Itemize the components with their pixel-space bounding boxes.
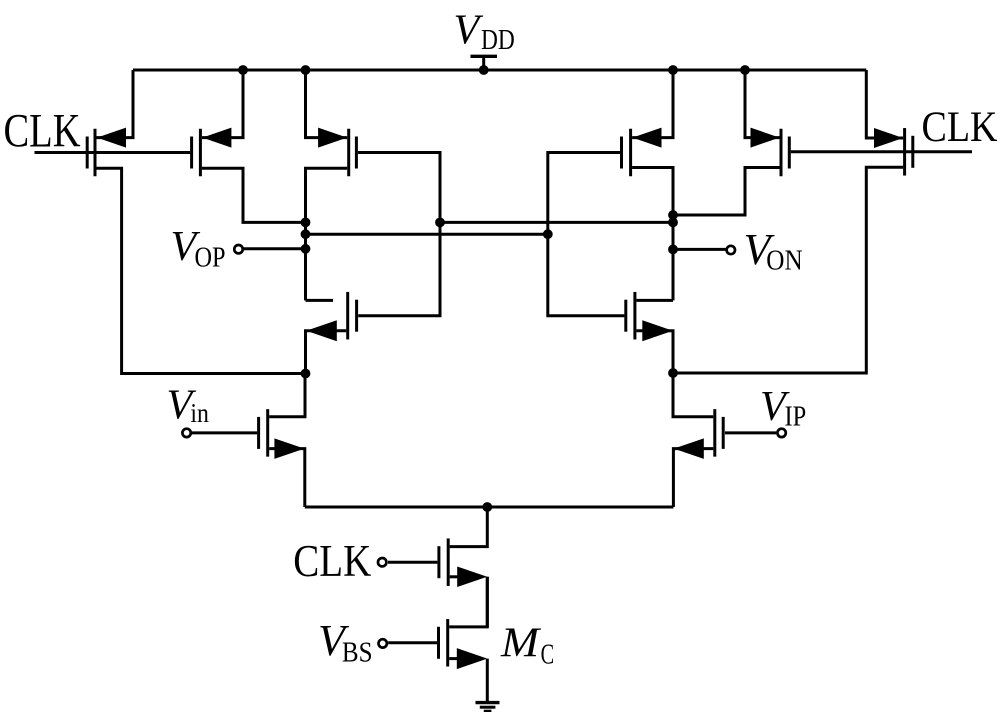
svg-text:BS: BS xyxy=(342,637,373,668)
svg-text:V: V xyxy=(454,7,484,53)
svg-text:DD: DD xyxy=(481,25,515,56)
svg-text:CLK: CLK xyxy=(4,106,81,158)
svg-text:in: in xyxy=(190,398,209,428)
svg-text:ON: ON xyxy=(766,246,802,277)
svg-text:CLK: CLK xyxy=(922,103,998,151)
svg-text:OP: OP xyxy=(195,242,226,274)
svg-text:M: M xyxy=(500,621,541,667)
svg-text:IP: IP xyxy=(785,402,807,433)
svg-text:C: C xyxy=(541,638,555,670)
svg-text:CLK: CLK xyxy=(293,536,371,586)
